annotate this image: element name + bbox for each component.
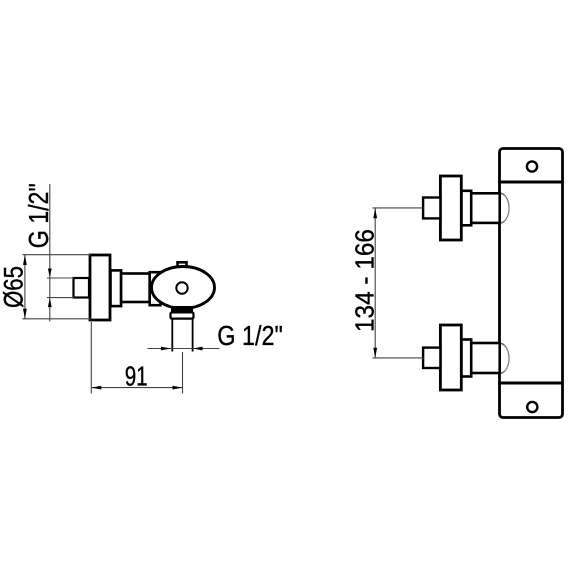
upper connection dome arc inner bbox=[501, 194, 509, 222]
arrow down to lower knob axis bbox=[373, 348, 377, 358]
wall flange (Ø65) bbox=[90, 255, 110, 320]
arrow up to upper knob axis bbox=[373, 208, 377, 218]
arrow up to fitting bottom bbox=[48, 298, 52, 307]
extension line from flange bottom bbox=[90, 322, 92, 394]
outlet pipe left edge bbox=[171, 319, 173, 352]
svg-text:Ø65: Ø65 bbox=[0, 266, 28, 308]
screw hole top bbox=[527, 161, 537, 171]
extension line flange bottom bbox=[22, 318, 91, 320]
step ring right of flange bbox=[111, 270, 122, 306]
handle ellipse bbox=[152, 267, 215, 309]
bottom collar under handle bbox=[171, 312, 194, 318]
lower connection dome arc outer bbox=[501, 343, 509, 373]
dimension line 134-166 vertical bbox=[374, 208, 376, 358]
lower knob handle bbox=[440, 325, 461, 390]
tab on top of handle bbox=[178, 262, 187, 269]
body divider line bottom bbox=[498, 382, 563, 385]
extension line upper knob axis bbox=[373, 207, 424, 209]
arrow right at pipe axis bbox=[173, 386, 183, 390]
body divider line top bbox=[498, 181, 563, 184]
dimension line G1/2 vertical bbox=[49, 184, 51, 322]
arrow left at wall plane bbox=[91, 386, 101, 390]
svg-text:G 1/2": G 1/2" bbox=[217, 320, 282, 351]
dimension line 91 bbox=[91, 387, 182, 389]
extension line fitting bottom bbox=[47, 297, 74, 299]
lower knob cap bbox=[423, 348, 440, 368]
arrow left at pipe right edge bbox=[193, 347, 203, 351]
extension line lower knob axis bbox=[373, 357, 424, 359]
arrow right at pipe left edge bbox=[161, 347, 171, 351]
lower knob neck bbox=[471, 343, 500, 373]
extension line fitting top bbox=[47, 277, 74, 279]
upper knob handle bbox=[440, 176, 461, 240]
arrow down to fitting top bbox=[48, 269, 52, 278]
wall fitting square (G 1/2 inlet) bbox=[74, 278, 90, 298]
upper knob neck bbox=[471, 193, 500, 223]
extension line flange top bbox=[22, 254, 91, 256]
arrow down to flange bottom bbox=[23, 309, 27, 319]
lower knob step bbox=[461, 340, 471, 377]
svg-text:G 1/2": G 1/2" bbox=[23, 183, 54, 248]
dimension line Ø65 vertical bbox=[24, 255, 26, 319]
neck tube bbox=[121, 274, 150, 303]
upper knob step bbox=[461, 191, 471, 226]
mixer body bar bbox=[500, 149, 563, 418]
svg-text:91: 91 bbox=[125, 360, 148, 391]
arrow up to flange top bbox=[23, 255, 27, 265]
upper connection dome arc outer bbox=[501, 193, 509, 223]
lower connection dome arc inner bbox=[501, 345, 509, 373]
center button circle bbox=[176, 282, 187, 293]
screw hole bottom bbox=[527, 402, 537, 412]
collar before handle bbox=[150, 272, 161, 305]
upper knob cap bbox=[423, 198, 440, 219]
extension line pipe axis bbox=[182, 352, 184, 394]
black connector wedge under handle bbox=[171, 306, 193, 313]
outlet pipe right edge bbox=[192, 319, 194, 352]
G1/2 outlet dimension line bbox=[148, 348, 220, 350]
